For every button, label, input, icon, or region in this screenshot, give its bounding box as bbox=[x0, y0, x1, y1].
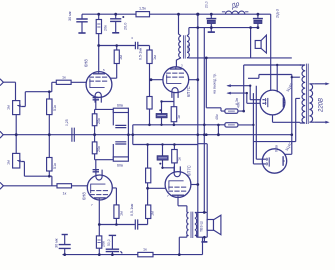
capacitor RC-block top C bbox=[115, 125, 126, 127]
wire input2 run bbox=[3, 185, 87, 187]
wire OT2 secondary loop bbox=[197, 212, 208, 237]
node filtered B+ line2 bbox=[189, 27, 258, 29]
node dot V4 screen bbox=[196, 183, 199, 186]
node dot wiper1 junction bbox=[48, 90, 51, 93]
wire V2 cathode node bbox=[162, 92, 174, 125]
wire V4 cathode node bbox=[163, 145, 175, 173]
mains arrow top bbox=[314, 82, 329, 85]
resistor R1a grid leak bbox=[47, 99, 52, 115]
node dot tap bbox=[291, 76, 293, 78]
svg-text:20к: 20к bbox=[102, 241, 106, 247]
wire input1 to pot1 bbox=[3, 82, 16, 135]
svg-text:6Н8: 6Н8 bbox=[82, 192, 87, 200]
capacitor C-coupling top bbox=[135, 42, 137, 50]
tube V1 6N8 bbox=[86, 72, 112, 103]
svg-text:20,0: 20,0 bbox=[124, 23, 128, 30]
resistor R2b grid leak bbox=[47, 158, 52, 172]
wire rect1 bottom to HV bbox=[273, 115, 300, 122]
capacitor RC-block bottom C bbox=[115, 142, 126, 144]
svg-text:0,5-1мк: 0,5-1мк bbox=[130, 203, 134, 216]
node dot V4 cathode node bbox=[161, 167, 163, 169]
wire V4 screen lead bbox=[191, 184, 198, 186]
svg-text:20к: 20к bbox=[97, 146, 101, 152]
capacitor C2 20m rail bbox=[110, 14, 124, 33]
potentiometer P2 bbox=[13, 153, 22, 168]
svg-text:1м: 1м bbox=[153, 55, 157, 60]
svg-text:5Ц4С: 5Ц4С bbox=[286, 82, 294, 92]
node dot line2 CB bbox=[257, 26, 260, 29]
capacitor C-coupling bottom bbox=[135, 219, 137, 229]
node dot Rg2a top bbox=[115, 44, 118, 47]
node dot V4 grid bbox=[146, 187, 149, 190]
wire rail corner down to PSU bbox=[270, 14, 272, 90]
svg-text:1м: 1м bbox=[151, 211, 155, 216]
svg-text:51к: 51к bbox=[53, 105, 57, 111]
resistor Rg V4 bbox=[146, 205, 151, 219]
svg-text:3: 3 bbox=[181, 64, 183, 68]
wire bottom rail bbox=[63, 237, 203, 254]
svg-text:60в: 60в bbox=[117, 104, 123, 108]
node dot riser cross bbox=[252, 124, 254, 126]
node dot V1 anode junction bbox=[97, 44, 100, 47]
svg-text:1м: 1м bbox=[119, 55, 123, 60]
node dot OT2 loop bottom bbox=[203, 236, 206, 239]
dots group bbox=[15, 13, 293, 256]
node dot rail bottom C2 bbox=[111, 253, 114, 256]
wire V1 anode column bbox=[98, 14, 100, 72]
node dot bus RC right bbox=[127, 133, 130, 136]
svg-text:Др: Др bbox=[229, 0, 241, 10]
svg-text:1м: 1м bbox=[7, 160, 11, 165]
capacitor Ck V2 electrolytic bbox=[156, 109, 167, 118]
node dot screen line drop bbox=[217, 124, 220, 127]
wire heater feed 1 bbox=[228, 86, 263, 100]
terminal input 2 bbox=[0, 182, 3, 189]
node dot rail R-filter bbox=[97, 13, 100, 16]
terminal ground input bbox=[0, 131, 3, 138]
wire V1 cathode stem bbox=[95, 100, 114, 110]
svg-text:6П7С: 6П7С bbox=[187, 165, 192, 176]
resistor Rg V2 bbox=[147, 50, 152, 64]
wire coupling line bottom bbox=[99, 219, 147, 225]
ground bar OT2 bbox=[201, 241, 207, 243]
node B+ rail top bbox=[82, 13, 271, 15]
wire V4 anode to OT2 bbox=[178, 197, 187, 212]
node dot line144 Ck V4 bbox=[161, 143, 163, 145]
capacitor Ck V1 bbox=[93, 98, 99, 100]
wire heater feed 2 bbox=[228, 93, 263, 103]
wire screen line y124.8 bbox=[133, 125, 254, 145]
node dot screen line Rk V2 bbox=[173, 124, 176, 127]
node dot y144 Rk V4 bbox=[173, 143, 176, 146]
choke Dr bbox=[222, 11, 249, 14]
wire OT1 secondary loop bbox=[189, 28, 292, 155]
resistor Rk V2 bbox=[171, 107, 177, 122]
svg-text:40к: 40к bbox=[215, 114, 219, 120]
node dot y144 Rgl V4 bbox=[146, 143, 149, 146]
node dot line2 spk drop bbox=[249, 26, 252, 29]
node HT line to transformer bbox=[244, 64, 301, 66]
ground stub OT2 bbox=[203, 237, 205, 241]
wire long vertical 1 bbox=[197, 14, 199, 237]
node dot rail CA bbox=[210, 13, 213, 16]
wire V4 grid chain bbox=[148, 145, 166, 206]
svg-text:51к: 51к bbox=[53, 163, 57, 169]
svg-text:6,3в: 6,3в bbox=[235, 98, 239, 105]
wire RC block top sides bbox=[113, 110, 128, 134]
svg-text:30 мк: 30 мк bbox=[68, 11, 72, 21]
heater arrowhead 1 bbox=[226, 84, 230, 87]
wire grid leak R2b leads bbox=[48, 135, 50, 177]
wire HV winding tap bbox=[292, 76, 300, 78]
svg-text:1м: 1м bbox=[120, 211, 124, 216]
wire line y144.5 bbox=[133, 144, 207, 213]
svg-text:7: 7 bbox=[91, 203, 93, 207]
svg-text:1,5к: 1,5к bbox=[139, 7, 146, 11]
svg-text:5: 5 bbox=[103, 68, 105, 72]
svg-text:60в: 60в bbox=[117, 164, 123, 168]
node dot bus pot1 bbox=[15, 133, 18, 136]
resistor R20k upper bbox=[92, 114, 97, 126]
output transformer OT2 bbox=[187, 212, 197, 238]
resistor Rscreen1 bbox=[225, 109, 238, 113]
node dot line124 Ck bbox=[160, 124, 162, 126]
svg-text:0,5-1мк: 0,5-1мк bbox=[139, 47, 143, 60]
resistor R-filter vertical bbox=[96, 20, 101, 34]
wire coupling line top bbox=[99, 46, 150, 51]
tube V3 6N8 bbox=[87, 170, 112, 201]
node dot HV top anode bbox=[276, 64, 278, 66]
node dot Rg2a V3 bottom bbox=[115, 223, 118, 226]
resistor Rg2a V1 bbox=[114, 50, 119, 64]
svg-text:1к: 1к bbox=[143, 248, 147, 252]
svg-text:1к: 1к bbox=[177, 115, 181, 119]
svg-text:1к: 1к bbox=[62, 76, 66, 80]
wire RC block bottom sides bbox=[113, 135, 128, 159]
tube V2 6P7S bbox=[163, 67, 189, 98]
svg-text:ТВ-3: ТВ-3 bbox=[187, 44, 191, 52]
potentiometer P1 bbox=[13, 101, 22, 115]
node dot screen line v2 cross bbox=[203, 124, 206, 127]
svg-text:20к: 20к bbox=[97, 118, 101, 124]
svg-text:1к: 1к bbox=[63, 192, 67, 196]
resistor Rscreen2 bbox=[225, 123, 238, 127]
node dot heater1 bbox=[249, 85, 251, 87]
resistor Rgl V2 lower bbox=[147, 97, 152, 110]
resistor R-bias V3 bbox=[96, 236, 101, 248]
svg-text:6,3в: 6,3в bbox=[275, 145, 279, 152]
capacitor C-bottom1 30mk bbox=[59, 235, 71, 255]
node dot OT2 loop top bbox=[203, 211, 206, 214]
node dot bus drop bbox=[217, 133, 220, 136]
svg-text:220В: 220В bbox=[319, 98, 325, 113]
node dot rail bottom Rbias bbox=[98, 253, 101, 256]
resistor RC-block top R bbox=[113, 108, 128, 112]
wires group bbox=[3, 14, 301, 254]
wire V2 screen lead bbox=[188, 79, 197, 81]
node dot rail vertical1 bbox=[196, 13, 199, 16]
wire rect1 anode lead bbox=[276, 65, 278, 91]
svg-text:50,0: 50,0 bbox=[107, 239, 111, 246]
wire V1 grid stopper run bbox=[21, 82, 86, 106]
wire V3 anode column bbox=[98, 200, 100, 255]
svg-text:1м: 1м bbox=[7, 105, 11, 110]
node dot screen line Rgl V2 bbox=[148, 124, 151, 127]
resistor Rgl V4 upper bbox=[146, 168, 151, 183]
capacitor Ck V3 bbox=[93, 170, 99, 172]
wire V1 grid2 branch bbox=[110, 46, 116, 79]
node dot V3 anode junction bbox=[98, 223, 101, 226]
node dot V2 grid bbox=[150, 78, 153, 81]
capacitor C1 30mk rail bbox=[76, 14, 87, 33]
node dot rail CB bbox=[257, 13, 260, 16]
node dot bus divider bbox=[93, 133, 96, 136]
wire long vertical 2 bbox=[203, 28, 205, 213]
node ground bus bbox=[3, 134, 292, 136]
resistor R-rail horizontal bbox=[136, 12, 150, 17]
resistor R-rail bottom horizontal bbox=[138, 252, 153, 256]
svg-text:0,25: 0,25 bbox=[65, 119, 69, 126]
tube V4 6P7S bbox=[165, 166, 191, 197]
node dot line2 CA bbox=[210, 26, 213, 29]
svg-text:7: 7 bbox=[167, 194, 169, 198]
wire rect2 filament hook bbox=[253, 86, 299, 164]
terminal input 1 bbox=[0, 79, 3, 86]
tube VR2 rectifier bbox=[262, 149, 286, 173]
capacitor series bus bbox=[72, 128, 74, 142]
resistor Rk V4 bbox=[172, 150, 178, 163]
wire OT2 primary bottom return bbox=[179, 237, 187, 254]
node dot bus x132.8 bbox=[132, 133, 135, 136]
svg-text:с: с bbox=[132, 36, 134, 40]
wire V3 grid2 branch bbox=[112, 188, 116, 225]
wire B+ branch vertical bbox=[243, 65, 245, 111]
node dot V2 cathode node bbox=[160, 100, 162, 102]
node dot bus vertical2 bbox=[203, 133, 206, 136]
capacitor Ck V4 electrolytic bbox=[157, 156, 168, 165]
node dot bus vertical1 bbox=[197, 133, 200, 136]
tube VR1 rectifier bbox=[260, 90, 285, 115]
svg-text:20к: 20к bbox=[104, 25, 108, 31]
node dot secondary line bbox=[205, 57, 208, 60]
svg-text:ТВ3-Ш: ТВ3-Ш bbox=[200, 221, 204, 232]
svg-text:6Н8: 6Н8 bbox=[84, 59, 89, 67]
mains arrow bottom bbox=[314, 121, 329, 124]
wire cathode divider column bbox=[95, 109, 114, 169]
svg-text:на выход тр.: на выход тр. bbox=[213, 73, 217, 94]
resistor R-stopper V1 bbox=[56, 80, 71, 84]
svg-text:30 мк: 30 мк bbox=[55, 238, 59, 248]
node dot rail C2 bbox=[114, 13, 117, 16]
node dot wiper2 junction bbox=[48, 175, 51, 178]
resistor R-stopper V3 bbox=[57, 184, 72, 188]
svg-text:6П7С: 6П7С bbox=[186, 86, 191, 97]
speaker SP2 bbox=[207, 215, 221, 235]
svg-text:20,0: 20,0 bbox=[205, 1, 209, 8]
node dot heater2 bbox=[246, 92, 248, 94]
power transformer T1 bbox=[300, 64, 314, 124]
wire screen feed upper bbox=[206, 58, 243, 111]
wire pot2 leads bbox=[16, 135, 52, 186]
svg-text:1к: 1к bbox=[178, 157, 182, 161]
node dot bus end bbox=[291, 133, 294, 136]
node dot V2 screen bbox=[196, 78, 199, 81]
node dot line2 vertical2 bbox=[197, 26, 200, 29]
capacitor C-bottom2 bbox=[106, 235, 123, 254]
wire V2 grid chain bbox=[150, 64, 164, 125]
node dot bus screen feed bbox=[205, 133, 208, 136]
node dot rail bottom return bbox=[178, 253, 181, 256]
heater arrowhead 2 bbox=[226, 92, 230, 95]
wire grid leak R1a leads bbox=[48, 92, 50, 135]
resistor R20k lower bbox=[92, 142, 97, 154]
node dot rail bottom C1 bbox=[63, 253, 66, 256]
node dot rail OT1 primary bbox=[177, 13, 180, 16]
node dot HT branch bbox=[242, 110, 245, 113]
capacitor CA electrolytic bbox=[206, 14, 216, 27]
speaker SP1 bbox=[255, 35, 266, 53]
svg-text:2гд-3: 2гд-3 bbox=[276, 9, 280, 18]
capacitor CB electrolytic bbox=[253, 14, 263, 27]
resistor Rg2a V3 bbox=[114, 205, 119, 219]
resistor RC-block bottom R bbox=[113, 157, 128, 161]
node dot bus R1a bbox=[48, 133, 51, 136]
output transformer OT1 bbox=[176, 14, 189, 67]
ground bar CA bbox=[208, 28, 215, 32]
